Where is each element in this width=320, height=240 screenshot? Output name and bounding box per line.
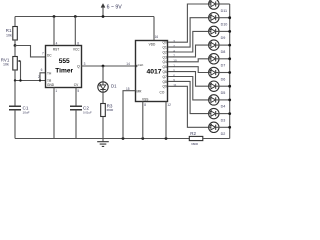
svg-text:Q4: Q4: [163, 60, 167, 64]
svg-text:0.01uF: 0.01uF: [83, 110, 92, 114]
svg-text:14: 14: [126, 62, 130, 66]
node wiper junction: [19, 79, 21, 81]
LED D11: [209, 0, 230, 13]
wire 555 VCC pin 8 to rail: [74, 17, 76, 46]
node TH TR junction: [39, 79, 41, 81]
wire TH pin 6 jog: [40, 73, 46, 81]
node R1 RV1 junction: [14, 44, 17, 47]
wire Q8 to D3: [168, 81, 209, 113]
svg-text:Q0: Q0: [163, 41, 167, 45]
wire 4017 VSS pin 8 to ground: [142, 102, 144, 139]
svg-text:Q6: Q6: [163, 70, 167, 74]
svg-text:VDD: VDD: [149, 42, 156, 46]
wire Q0 to D11: [168, 4, 209, 42]
svg-text:Timer: Timer: [55, 68, 73, 75]
svg-text:TH: TH: [47, 71, 52, 75]
counter U2 4017 box: [136, 41, 168, 102]
svg-text:DC: DC: [47, 53, 52, 57]
svg-text:Q9: Q9: [163, 85, 167, 89]
wire 4017 MR pin 15 to ground: [123, 91, 136, 139]
wire C2 to ground rail: [75, 110, 77, 139]
svg-text:555: 555: [59, 58, 70, 65]
node power junction: [102, 15, 105, 18]
resistor R2 680R: [189, 131, 203, 146]
svg-text:Q: Q: [77, 65, 80, 69]
svg-text:D6: D6: [221, 77, 226, 81]
wire TR net to 555 pin 2: [15, 80, 46, 82]
LED D9: [209, 26, 230, 40]
svg-text:D11: D11: [221, 9, 228, 13]
svg-text:12: 12: [167, 103, 171, 107]
node D5 bus junction: [228, 85, 231, 88]
svg-text:680R: 680R: [191, 142, 198, 146]
capacitor C1 10uF: [9, 105, 30, 114]
LED D4: [209, 95, 230, 109]
svg-text:Q1: Q1: [163, 46, 167, 50]
svg-text:R1: R1: [6, 28, 12, 33]
wire R3 to ground rail: [102, 117, 104, 139]
wire C1 to ground rail: [14, 110, 16, 139]
wire RV1 bottom to TR net: [14, 70, 16, 81]
svg-text:R2: R2: [190, 131, 196, 136]
LED D7: [209, 54, 230, 68]
node D8 bus junction: [228, 44, 231, 47]
node D10 bus junction: [228, 16, 231, 19]
LED D1: [98, 82, 117, 92]
svg-text:VCC: VCC: [73, 47, 80, 51]
wire Q1 to D10: [168, 18, 209, 47]
svg-text:D5: D5: [221, 91, 226, 95]
node VCC rail junction: [74, 15, 77, 18]
op-amp U1 555 Timer box: [46, 46, 82, 88]
wire bottom ground rail: [15, 138, 189, 140]
wire Q5 to D6: [168, 67, 209, 73]
wire left vertical from rail to R1: [14, 17, 16, 27]
wire 4017 VDD pin 16 to rail: [153, 17, 155, 41]
node D4 bus junction: [228, 99, 231, 102]
svg-text:D2: D2: [221, 132, 226, 136]
svg-text:CV: CV: [74, 83, 79, 87]
svg-text:10uF: 10uF: [23, 111, 30, 115]
potentiometer RV1 10k: [1, 57, 21, 81]
svg-text:VSS: VSS: [142, 97, 148, 101]
capacitor C2 0.01uF: [70, 105, 92, 114]
node CO ground junction: [165, 137, 168, 140]
svg-text:MR: MR: [137, 90, 143, 94]
node D3 bus junction: [228, 112, 231, 115]
svg-text:CLK: CLK: [138, 63, 144, 67]
svg-text:6 ~ 9V: 6 ~ 9V: [107, 5, 123, 11]
wire Q7 to D4: [168, 77, 209, 100]
svg-text:8: 8: [77, 41, 79, 45]
svg-text:D7: D7: [221, 64, 226, 68]
wire Q2 to D9: [168, 31, 209, 52]
svg-text:D9: D9: [221, 36, 226, 40]
wire Q9 to D2: [168, 86, 209, 127]
svg-text:Q7: Q7: [163, 75, 167, 79]
wire TR net down to C1: [14, 81, 16, 107]
node D2 bus junction: [228, 126, 231, 129]
resistor R3 680R: [101, 92, 114, 116]
svg-text:Q2: Q2: [163, 50, 167, 54]
resistor R1 10k: [6, 27, 17, 41]
wire to 555 DC pin 7: [15, 46, 46, 57]
node MR ground junction: [122, 137, 125, 140]
svg-text:4017: 4017: [146, 69, 161, 76]
svg-text:RST: RST: [53, 47, 59, 51]
svg-text:GND: GND: [47, 83, 55, 87]
LED D5: [209, 81, 230, 95]
svg-text:4: 4: [56, 41, 58, 45]
svg-text:16: 16: [155, 35, 159, 39]
svg-text:D3: D3: [221, 118, 226, 122]
wire down to D1: [102, 66, 104, 82]
svg-text:15: 15: [126, 87, 130, 91]
svg-text:10k: 10k: [3, 63, 9, 67]
svg-text:7: 7: [42, 52, 44, 56]
svg-text:D4: D4: [221, 105, 226, 109]
svg-text:680R: 680R: [107, 108, 114, 112]
svg-text:Q5: Q5: [163, 65, 167, 69]
svg-text:1: 1: [55, 89, 57, 93]
wire 4017 CO pin 12 to ground: [165, 102, 167, 139]
LED D2: [209, 122, 230, 136]
svg-text:8: 8: [144, 103, 146, 107]
ground: [97, 139, 109, 147]
wire R1 bottom: [14, 40, 16, 46]
node RST rail junction: [53, 15, 56, 18]
wire Q6 to D5: [168, 72, 209, 87]
node D6 bus junction: [228, 71, 231, 74]
wire 555 RST pin 4 to rail: [53, 17, 55, 46]
svg-text:Q3: Q3: [163, 55, 167, 59]
node D7 bus junction: [228, 57, 231, 60]
wire LED cathode bus: [229, 4, 231, 139]
svg-text:3: 3: [84, 62, 86, 66]
svg-text:10k: 10k: [6, 33, 12, 37]
wire 555 Q pin 3 to 4017 CLK: [81, 65, 136, 67]
wire Q3 to D8: [168, 45, 209, 57]
LED D3: [209, 108, 230, 122]
svg-text:Q8: Q8: [163, 80, 167, 84]
wire 555 CV pin 5 to C2: [75, 88, 77, 107]
svg-text:D1: D1: [111, 83, 117, 88]
wire 555 GND pin 1 to ground rail: [53, 88, 55, 139]
node TR RV1 junction: [14, 79, 16, 81]
svg-text:2: 2: [38, 75, 40, 79]
node D1 branch junction: [102, 65, 105, 68]
LED D6: [209, 67, 230, 81]
wire Q4 to D7: [168, 59, 209, 62]
svg-text:D10: D10: [221, 23, 228, 27]
svg-text:6: 6: [41, 68, 43, 72]
wire RV1 top (from R1 junction): [14, 46, 16, 57]
svg-text:D8: D8: [221, 50, 226, 54]
svg-text:CO: CO: [160, 90, 165, 94]
node VSS ground junction: [141, 137, 144, 140]
power flag 6-9V: [101, 4, 122, 17]
wire top power rail: [15, 16, 154, 18]
node D9 bus junction: [228, 30, 231, 33]
svg-text:5: 5: [77, 89, 79, 93]
LED D10: [209, 13, 230, 27]
LED D8: [209, 40, 230, 54]
wire R2 to bus: [203, 138, 230, 140]
